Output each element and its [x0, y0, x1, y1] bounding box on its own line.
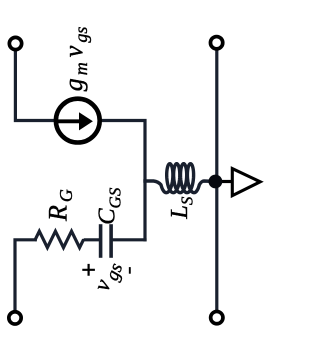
svg-text:vgs: vgs [89, 257, 127, 296]
svg-text:CGS: CGS [94, 187, 125, 225]
svg-text:LS: LS [166, 196, 197, 220]
svg-text:RG: RG [44, 186, 77, 222]
svg-text:gmvgs: gmvgs [59, 27, 91, 92]
